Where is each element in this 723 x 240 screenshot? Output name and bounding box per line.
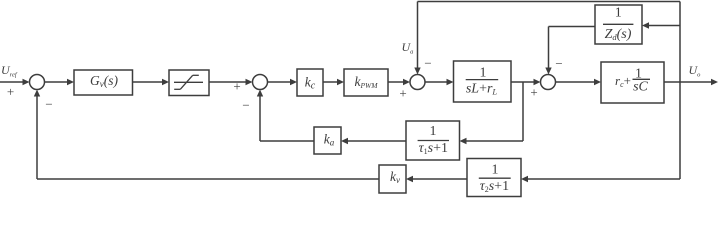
wire Ua vertical into S3 [414,2,420,75]
block limiter saturation [169,70,209,96]
sign plus at S3 [399,86,406,101]
wire kPWM to summing junction S3 [388,79,410,85]
wire voltage feedback from right vertical into tau2 block [521,176,680,182]
wire S2 to kc block [268,79,298,85]
wire tau2 to kv block [406,176,467,182]
svg-text:Zd(s): Zd(s) [605,27,632,42]
summing junction S4 [541,75,556,90]
wire inductor block to summing junction S4 [511,79,541,85]
summing junction S3 [410,75,425,90]
svg-text:Gv(s): Gv(s) [90,73,118,89]
wire S4 to output filter block [556,79,602,85]
node Uref input label [1,63,18,79]
block 1/Zd(s) [595,5,642,44]
svg-text:−: − [242,98,249,113]
block 1/(tau2 s+1) [467,159,521,197]
svg-text:−: − [555,56,562,71]
block Gv(s) voltage regulator [74,70,133,95]
block kPWM [344,69,388,96]
block rc+1/sC [601,62,664,103]
wire from right vertical into Zd input [642,22,680,28]
sign minus at S4 [555,56,562,71]
svg-text:+: + [530,85,537,100]
block ka [314,127,341,154]
wire ka to S2 up [257,90,314,142]
svg-text:−: − [45,97,52,112]
sign plus at S1 [7,84,14,99]
block 1/(sL+rL) [454,61,512,102]
wire limiter to summing junction S2 [209,79,253,85]
wire Gv to limiter [133,79,170,85]
svg-text:1: 1 [480,66,487,81]
sign minus at S1 [45,97,52,112]
svg-text:rc+: rc+ [615,73,631,89]
wire input to summing junction S1 [0,79,30,85]
svg-text:+: + [399,86,406,101]
svg-text:Ua: Ua [402,40,414,56]
sign plus at S2 [233,79,240,94]
svg-text:Uref: Uref [1,63,18,79]
block kc [297,69,323,96]
wire current feedback tap down and into tau1 block [460,82,524,144]
wire S3 to inductor block [425,79,454,85]
svg-text:1: 1 [430,124,437,139]
node Uo label [689,63,702,79]
node Ua label [402,40,414,56]
sign minus at S2 [242,98,249,113]
svg-text:sC: sC [633,80,648,95]
svg-text:+: + [233,79,240,94]
wire tau1 to ka block [341,138,406,144]
svg-text:−: − [424,56,431,71]
wire S1 to Gv block [45,79,75,85]
wire Zd output down into S4 [545,27,595,75]
block 1/(tau1 s+1) [406,121,460,160]
svg-text:τ2s+1: τ2s+1 [480,179,509,194]
svg-text:1: 1 [615,6,622,21]
wire kc to kPWM block [323,79,344,85]
summing junction S1 [30,75,45,90]
svg-text:τ1s+1: τ1s+1 [419,141,448,156]
wire top feedback horizontal [418,1,681,3]
svg-text:1: 1 [492,163,499,178]
sign plus at S4 [530,85,537,100]
summing junction S2 [253,75,268,90]
wire output Uo [664,79,718,85]
sign minus at S3 [424,56,431,71]
svg-text:+: + [7,84,14,99]
block kv [379,165,406,193]
svg-text:Uo: Uo [689,63,702,79]
wire kv to S1 up [34,90,379,180]
wire right vertical from top line down to bottom feedback [679,2,681,180]
